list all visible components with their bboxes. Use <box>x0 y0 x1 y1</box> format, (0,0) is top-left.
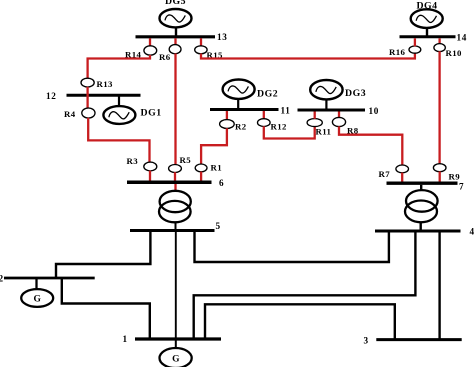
relay R3 <box>127 156 157 171</box>
wire DG4 stem <box>426 28 428 38</box>
wire bus6 to transformer T1 (red stem) <box>174 184 176 192</box>
bus 10 <box>298 106 380 116</box>
svg-text:3: 3 <box>364 335 369 345</box>
svg-text:R9: R9 <box>449 172 461 182</box>
svg-text:R3: R3 <box>127 156 139 166</box>
generator DG4 <box>411 1 443 28</box>
wire bus7 to transformer T2 <box>420 185 422 191</box>
bus 3 <box>364 335 462 345</box>
wire DG5 stem <box>175 27 177 37</box>
wire R2 to R1 <box>201 128 227 164</box>
svg-text:5: 5 <box>216 221 221 231</box>
relay R4 <box>64 108 95 119</box>
wire DG1 stem <box>118 96 120 107</box>
bus 1 <box>123 334 222 344</box>
transformer T1 <box>159 191 191 223</box>
svg-text:R13: R13 <box>97 79 113 89</box>
wire DG2 stem <box>237 99 239 111</box>
generator DG2 <box>223 80 279 100</box>
relay R5 <box>169 155 192 172</box>
bus 13 <box>136 32 228 42</box>
wire line 5-1 <box>175 231 177 340</box>
svg-text:R16: R16 <box>389 47 405 57</box>
wire R16 to bus14 <box>414 38 416 46</box>
wire line 2-1 <box>62 278 150 338</box>
wire bus14 to R10 <box>438 38 440 44</box>
svg-text:10: 10 <box>369 106 380 116</box>
svg-text:DG2: DG2 <box>257 88 278 99</box>
relay R11 <box>307 119 331 137</box>
relay R2 <box>220 120 247 132</box>
relay R8 <box>332 117 358 135</box>
relay R7 <box>379 165 409 179</box>
transformer T2 <box>405 190 438 222</box>
bus 2 <box>0 274 95 284</box>
wire bus11 to R2 <box>226 111 228 120</box>
relay R12 <box>258 119 287 132</box>
wire R8 to R7 <box>339 126 402 165</box>
svg-text:12: 12 <box>46 91 57 101</box>
svg-text:7: 7 <box>459 182 464 192</box>
svg-text:R12: R12 <box>271 122 287 132</box>
wire transformer T2 to bus4 <box>420 222 422 231</box>
wire DG3 stem <box>325 99 327 111</box>
bus 14 <box>400 33 468 43</box>
svg-text:R6: R6 <box>159 52 171 62</box>
bus 11 <box>210 106 291 116</box>
svg-text:G: G <box>34 295 42 305</box>
svg-text:DG5: DG5 <box>165 0 186 7</box>
svg-text:13: 13 <box>217 32 228 42</box>
wire R5 to bus6 <box>174 172 176 181</box>
wire R4 to R3 <box>88 118 149 163</box>
wire R13 to R4 <box>86 87 88 109</box>
wire R10 to R9 <box>438 51 440 164</box>
relay R15 <box>195 46 223 60</box>
svg-text:14: 14 <box>457 33 468 43</box>
svg-text:R10: R10 <box>446 48 462 58</box>
svg-text:DG3: DG3 <box>345 88 366 99</box>
svg-text:DG4: DG4 <box>416 1 437 12</box>
bus 4 <box>375 227 474 237</box>
wire R14 to R13 <box>88 55 150 79</box>
wire bus13 to R6 <box>174 38 176 45</box>
svg-text:6: 6 <box>219 178 224 188</box>
svg-text:R7: R7 <box>379 169 391 179</box>
wire R11 to bus10 <box>314 112 316 119</box>
wire bus13 to R15 <box>200 38 202 46</box>
wire line 5-2 <box>56 231 150 278</box>
wire R12 to R11 <box>264 126 315 138</box>
generator DG3 <box>310 80 366 99</box>
relay R14 <box>125 46 157 60</box>
wire line 1-3 <box>205 304 395 339</box>
svg-text:R1: R1 <box>211 163 222 173</box>
svg-text:4: 4 <box>470 227 474 237</box>
wire line 5-4 <box>195 231 389 263</box>
generator G2 <box>21 289 53 307</box>
svg-text:11: 11 <box>281 106 291 116</box>
wire bus11 to R12 <box>263 111 265 119</box>
wire line 1-4 <box>194 231 416 339</box>
generator DG1 <box>103 106 161 124</box>
wire R3 to bus6 <box>149 171 151 181</box>
wire R9 to bus7 <box>439 171 441 182</box>
generator DG5 <box>160 0 192 27</box>
svg-text:R2: R2 <box>235 121 247 131</box>
wire G1 stem <box>175 339 177 349</box>
wire bus10 to R8 <box>338 112 340 119</box>
relay R10 <box>434 44 462 58</box>
wire line 4-3 <box>438 231 440 340</box>
wire R7 to bus7 <box>401 173 403 182</box>
svg-text:DG1: DG1 <box>141 108 162 119</box>
svg-text:1: 1 <box>123 334 128 344</box>
wire R15 to R16 <box>201 53 415 59</box>
wire transformer T1 to bus5 <box>175 222 177 230</box>
svg-text:R4: R4 <box>64 109 76 119</box>
bus 7 <box>387 182 465 192</box>
relay R1 <box>195 163 222 173</box>
bus 12 <box>46 91 141 101</box>
wire bus13 to R14 <box>149 38 151 46</box>
generator G1 <box>160 348 192 367</box>
relay R16 <box>389 46 421 57</box>
bus 5 <box>130 221 221 231</box>
wire R1 to bus6 <box>200 172 202 181</box>
wire G2 stem <box>35 278 37 290</box>
bus 6 <box>127 178 224 188</box>
svg-text:G: G <box>172 355 180 365</box>
relay R13 <box>81 78 113 89</box>
relay R9 <box>433 164 460 182</box>
relay R6 <box>159 45 181 62</box>
svg-text:R5: R5 <box>180 155 192 165</box>
svg-text:2: 2 <box>0 274 4 284</box>
svg-text:R11: R11 <box>316 127 332 137</box>
wire R6 to R5 <box>174 54 176 166</box>
